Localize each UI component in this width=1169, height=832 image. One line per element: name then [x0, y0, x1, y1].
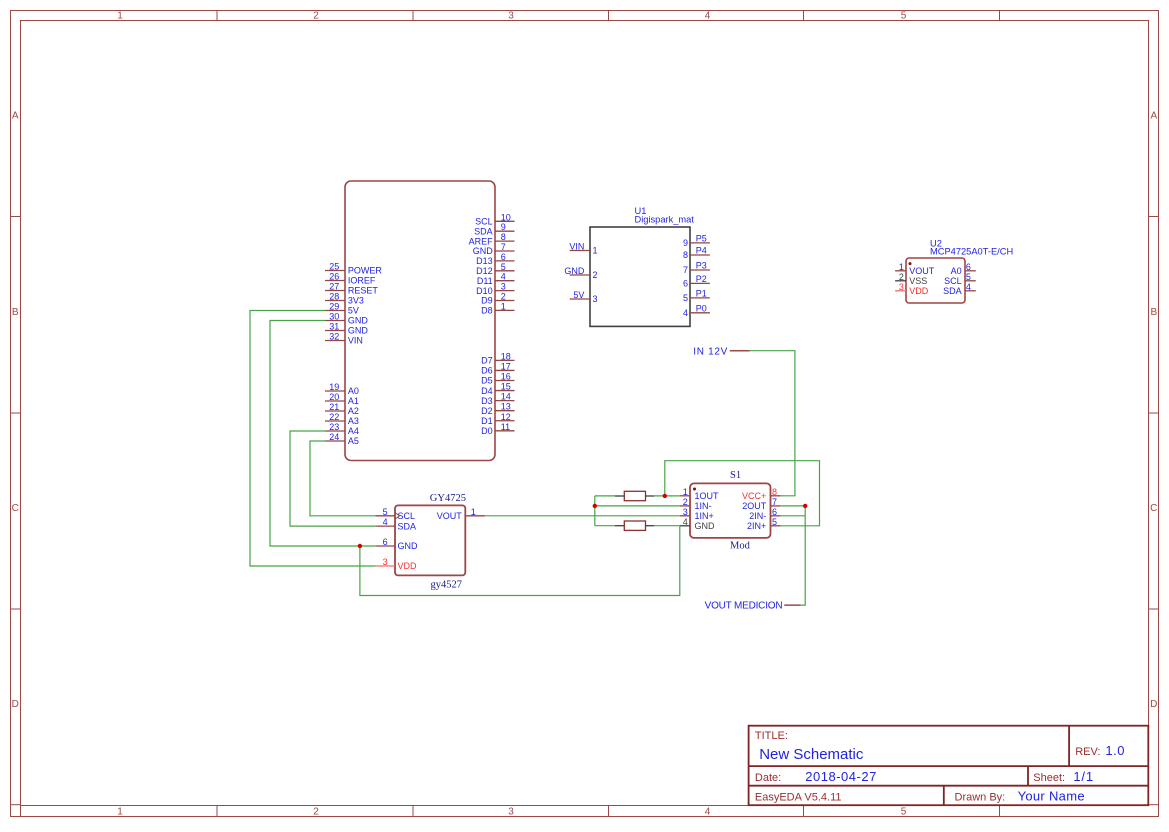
- svg-text:VIN: VIN: [569, 242, 584, 252]
- svg-text:17: 17: [501, 361, 511, 371]
- svg-text:31: 31: [329, 322, 339, 332]
- svg-text:VOUT MEDICION: VOUT MEDICION: [705, 601, 783, 612]
- svg-text:D11: D11: [477, 276, 493, 286]
- svg-text:3: 3: [501, 282, 506, 292]
- svg-text:23: 23: [329, 422, 339, 432]
- svg-text:A3: A3: [348, 416, 359, 426]
- svg-text:SDA: SDA: [474, 226, 493, 236]
- svg-text:A0: A0: [951, 266, 962, 276]
- svg-text:VOUT: VOUT: [437, 511, 463, 521]
- svg-text:16: 16: [501, 372, 511, 382]
- svg-text:P3: P3: [696, 261, 707, 271]
- svg-text:D13: D13: [476, 256, 493, 266]
- svg-text:2IN+: 2IN+: [747, 521, 766, 531]
- svg-text:GY4725: GY4725: [430, 493, 466, 504]
- svg-text:6: 6: [383, 537, 388, 547]
- svg-text:2: 2: [593, 270, 598, 280]
- svg-text:P1: P1: [696, 288, 707, 298]
- svg-text:New Schematic: New Schematic: [759, 746, 864, 763]
- svg-text:6: 6: [501, 252, 506, 262]
- svg-text:3: 3: [593, 294, 598, 304]
- svg-text:C: C: [12, 503, 19, 514]
- svg-text:4: 4: [383, 517, 388, 527]
- svg-text:Date:: Date:: [755, 772, 781, 784]
- svg-text:D3: D3: [481, 396, 493, 406]
- svg-text:3V3: 3V3: [348, 296, 364, 306]
- svg-text:25: 25: [329, 262, 339, 272]
- svg-text:Your Name: Your Name: [1018, 789, 1085, 804]
- svg-text:8: 8: [501, 232, 506, 242]
- svg-text:27: 27: [329, 282, 339, 292]
- svg-text:8: 8: [683, 250, 688, 260]
- svg-text:2: 2: [683, 497, 688, 507]
- svg-text:C: C: [1150, 503, 1157, 514]
- svg-text:21: 21: [329, 402, 339, 412]
- svg-text:1/1: 1/1: [1073, 769, 1093, 784]
- svg-text:D4: D4: [481, 386, 493, 396]
- svg-text:SDA: SDA: [943, 286, 962, 296]
- svg-text:10: 10: [501, 212, 511, 222]
- svg-text:Sheet:: Sheet:: [1033, 772, 1065, 784]
- svg-text:3: 3: [383, 557, 388, 567]
- svg-text:1: 1: [117, 11, 123, 22]
- svg-text:6: 6: [966, 262, 971, 272]
- svg-text:Drawn By:: Drawn By:: [955, 792, 1006, 804]
- svg-text:4: 4: [683, 308, 688, 318]
- svg-text:1: 1: [117, 807, 123, 818]
- svg-text:6: 6: [683, 279, 688, 289]
- svg-text:3: 3: [508, 807, 514, 818]
- svg-text:SCL: SCL: [475, 217, 493, 227]
- svg-text:3: 3: [508, 11, 514, 22]
- svg-text:4: 4: [683, 517, 688, 527]
- svg-text:1: 1: [471, 507, 476, 517]
- svg-text:EasyEDA V5.4.11: EasyEDA V5.4.11: [755, 792, 842, 804]
- svg-text:1IN-: 1IN-: [695, 501, 712, 511]
- svg-text:7: 7: [501, 242, 506, 252]
- svg-text:D: D: [12, 699, 19, 710]
- svg-text:D2: D2: [481, 406, 493, 416]
- svg-text:A5: A5: [348, 436, 359, 446]
- svg-text:4: 4: [501, 272, 506, 282]
- svg-text:D9: D9: [481, 296, 493, 306]
- svg-text:2OUT: 2OUT: [742, 501, 767, 511]
- svg-text:D5: D5: [481, 376, 493, 386]
- svg-text:24: 24: [329, 432, 339, 442]
- svg-text:19: 19: [329, 382, 339, 392]
- svg-text:5V: 5V: [348, 306, 359, 316]
- svg-text:1IN+: 1IN+: [695, 511, 714, 521]
- svg-text:D10: D10: [476, 286, 493, 296]
- svg-text:1OUT: 1OUT: [695, 491, 720, 501]
- svg-text:P5: P5: [696, 233, 707, 243]
- svg-text:GND: GND: [348, 316, 369, 326]
- svg-text:D0: D0: [481, 426, 493, 436]
- svg-text:VDD: VDD: [909, 286, 929, 296]
- svg-text:D6: D6: [481, 366, 493, 376]
- svg-text:GND: GND: [564, 266, 585, 276]
- svg-text:A0: A0: [348, 386, 359, 396]
- svg-text:D8: D8: [481, 306, 493, 316]
- svg-text:3: 3: [683, 507, 688, 517]
- svg-text:D12: D12: [476, 266, 493, 276]
- svg-text:POWER: POWER: [348, 266, 383, 276]
- svg-text:5: 5: [901, 11, 907, 22]
- svg-text:VDD: VDD: [398, 561, 418, 571]
- svg-text:1: 1: [501, 301, 506, 311]
- svg-text:6: 6: [772, 507, 777, 517]
- svg-text:TITLE:: TITLE:: [755, 730, 788, 742]
- svg-text:MCP4725A0T-E/CH: MCP4725A0T-E/CH: [930, 246, 1013, 256]
- svg-text:1: 1: [683, 487, 688, 497]
- svg-text:11: 11: [501, 422, 510, 432]
- svg-text:7: 7: [772, 497, 777, 507]
- svg-text:12: 12: [501, 412, 511, 422]
- svg-text:IOREF: IOREF: [348, 276, 376, 286]
- svg-text:32: 32: [329, 332, 339, 342]
- svg-text:15: 15: [501, 382, 511, 392]
- svg-text:5: 5: [901, 807, 907, 818]
- svg-text:7: 7: [683, 265, 688, 275]
- svg-text:22: 22: [329, 412, 339, 422]
- svg-text:B: B: [12, 307, 19, 318]
- svg-text:A: A: [1150, 110, 1157, 121]
- svg-text:D7: D7: [481, 356, 493, 366]
- svg-text:2018-04-27: 2018-04-27: [805, 769, 877, 784]
- svg-text:2IN-: 2IN-: [749, 511, 766, 521]
- svg-text:SCL: SCL: [944, 276, 962, 286]
- svg-text:2: 2: [899, 272, 904, 282]
- svg-text:5: 5: [966, 272, 971, 282]
- svg-text:GND: GND: [348, 326, 369, 336]
- svg-text:9: 9: [501, 222, 506, 232]
- svg-text:A2: A2: [348, 406, 359, 416]
- svg-text:2: 2: [313, 807, 319, 818]
- svg-text:4: 4: [705, 11, 711, 22]
- svg-text:9: 9: [683, 238, 688, 248]
- svg-text:1: 1: [899, 262, 904, 272]
- svg-text:5: 5: [683, 293, 688, 303]
- svg-text:26: 26: [329, 272, 339, 282]
- svg-text:4: 4: [966, 282, 971, 292]
- svg-text:29: 29: [329, 302, 339, 312]
- svg-text:5V: 5V: [573, 290, 584, 300]
- svg-text:30: 30: [329, 312, 339, 322]
- svg-text:GND: GND: [398, 541, 419, 551]
- svg-text:SDA: SDA: [398, 521, 417, 531]
- svg-text:18: 18: [501, 351, 511, 361]
- svg-text:A4: A4: [348, 426, 359, 436]
- svg-text:2: 2: [313, 11, 319, 22]
- svg-text:S1: S1: [730, 470, 741, 481]
- svg-text:Digispark_mat: Digispark_mat: [635, 215, 695, 225]
- svg-text:D: D: [1150, 699, 1157, 710]
- svg-text:Mod: Mod: [730, 541, 751, 552]
- svg-text:VCC+: VCC+: [742, 491, 766, 501]
- svg-text:REV:: REV:: [1075, 746, 1100, 758]
- svg-text:5: 5: [772, 517, 777, 527]
- svg-text:VOUT: VOUT: [909, 266, 935, 276]
- svg-text:28: 28: [329, 292, 339, 302]
- svg-text:P2: P2: [696, 274, 707, 284]
- svg-text:AREF: AREF: [469, 236, 494, 246]
- svg-text:IN 12V: IN 12V: [693, 346, 728, 357]
- svg-text:20: 20: [329, 392, 339, 402]
- svg-text:VIN: VIN: [348, 336, 363, 346]
- svg-text:14: 14: [501, 392, 511, 402]
- svg-text:RESET: RESET: [348, 286, 379, 296]
- svg-text:3: 3: [899, 282, 904, 292]
- svg-text:P4: P4: [696, 246, 707, 256]
- svg-text:P0: P0: [696, 303, 707, 313]
- svg-text:A1: A1: [348, 396, 359, 406]
- svg-text:D1: D1: [481, 416, 493, 426]
- svg-text:5: 5: [501, 262, 506, 272]
- svg-text:GND: GND: [473, 246, 494, 256]
- svg-text:2: 2: [501, 292, 506, 302]
- svg-text:13: 13: [501, 402, 511, 412]
- svg-text:B: B: [1150, 307, 1157, 318]
- svg-text:1: 1: [593, 246, 598, 256]
- svg-text:VSS: VSS: [909, 276, 927, 286]
- svg-text:A: A: [12, 110, 19, 121]
- svg-text:5: 5: [383, 507, 388, 517]
- svg-text:8: 8: [772, 487, 777, 497]
- svg-text:gy4527: gy4527: [431, 579, 463, 590]
- svg-text:4: 4: [705, 807, 711, 818]
- svg-text:1.0: 1.0: [1105, 743, 1125, 758]
- svg-text:GND: GND: [695, 521, 716, 531]
